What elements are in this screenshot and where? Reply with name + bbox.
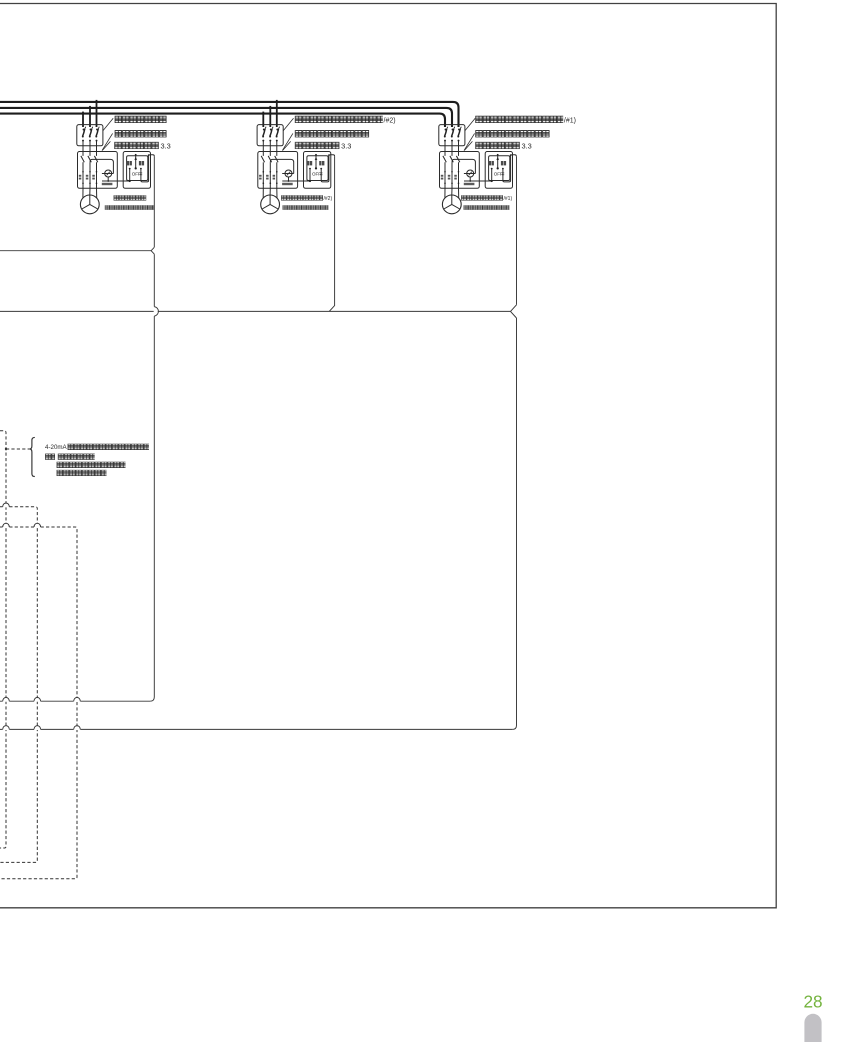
leader line to breaker label branch 1 <box>103 118 113 131</box>
dashed wire 1 (4-20mA output) <box>0 431 6 848</box>
overload element mark phase 3 branch 1 <box>92 175 95 177</box>
label: cooling tower fan motor (low/#1) <box>461 195 503 201</box>
breaker pole 1 branch 3 <box>445 129 447 131</box>
grey tab pill <box>804 1014 821 1042</box>
switch pole branch 1 <box>135 154 137 156</box>
svg-text:OFF: OFF <box>494 172 503 177</box>
wire phase 3 through overload branch 1 <box>96 162 98 188</box>
wire phase 3 through overload branch 2 <box>276 162 278 188</box>
label: not supplied by Carrier (b1) <box>105 205 154 210</box>
wire phase 3 breaker to starter branch 1 <box>96 141 98 156</box>
label: optional switch see note 3.3 (b3) <box>475 142 520 149</box>
page border frame <box>0 4 776 908</box>
curly brace <box>30 437 35 476</box>
overload protection label branch 3 <box>464 183 475 185</box>
svg-text:3.3: 3.3 <box>341 142 351 151</box>
contactor contact phase 3 branch 2 <box>275 156 278 162</box>
wire phase 1 through overload branch 1 <box>82 162 84 188</box>
optional HOA switch box branch 2 <box>304 152 331 189</box>
hand label branch 1 <box>127 161 129 165</box>
label: cooling tower fan motor breaker (high/#2) <box>295 116 383 123</box>
motor M3 feed wires <box>444 188 446 198</box>
breaker pole 3 branch 2 <box>276 129 278 131</box>
svg-text:28: 28 <box>804 992 823 1012</box>
leader line to switch note branch 2 <box>283 141 291 150</box>
control wire coil to switch branch 3 <box>469 177 471 181</box>
wire phase 1 breaker to starter branch 2 <box>262 141 264 156</box>
T-junction chamfer b1 at y=250.7 <box>151 247 154 254</box>
auto contact + output wire branch 3 <box>502 168 504 170</box>
3-phase power bus L3 <box>0 114 445 127</box>
wire phase 2 breaker to starter branch 2 <box>269 141 271 156</box>
overload relay coil circle branch 3 <box>467 170 474 177</box>
note line 2 <box>45 454 55 460</box>
leader line to starter label branch 2 <box>282 133 293 150</box>
wire phase 1 breaker to starter branch 1 <box>82 141 84 156</box>
switch pole branch 2 <box>315 154 317 156</box>
auto contact + output wire branch 1 <box>140 168 142 170</box>
breaker pole 2 branch 1 <box>90 129 92 131</box>
label: optional switch see note 3.3 (b1) <box>114 142 159 149</box>
motor M1 circle <box>80 195 99 214</box>
auto label branch 2 <box>319 161 321 165</box>
overload element mark phase 2 branch 1 <box>86 175 89 177</box>
label: cooling water pump motor <box>114 195 147 201</box>
breaker pole 3 branch 1 <box>96 129 98 131</box>
wire branch2 HOA down, merge into y=311.4 <box>329 156 334 311</box>
wire horizontal y=250.7 to left edge <box>0 250 151 252</box>
wire tap phase 1 branch 2 <box>262 112 264 127</box>
contactor contact phase 3 branch 1 <box>94 156 97 162</box>
overload relay coil circle branch 2 <box>285 170 292 177</box>
contactor contact phase 2 branch 1 <box>88 156 91 162</box>
circuit breaker CB2 box <box>257 125 283 146</box>
hop: dashed wire2 over wire1 <box>3 504 10 508</box>
contactor contact phase 1 branch 1 <box>81 156 84 162</box>
wire phase 2 breaker to starter branch 3 <box>451 141 453 156</box>
optional HOA switch box branch 3 <box>485 152 512 189</box>
starter coil wiring branch 1 <box>90 159 113 173</box>
hand label branch 3 <box>489 161 491 165</box>
overload element mark phase 1 branch 3 <box>441 175 444 177</box>
overload element mark phase 3 branch 3 <box>454 175 457 177</box>
overload element mark phase 3 branch 2 <box>273 175 276 177</box>
contactor contact phase 1 branch 3 <box>443 156 446 162</box>
dashed wire 2 <box>0 507 37 863</box>
wire phase 2 through overload branch 2 <box>269 162 271 188</box>
wire phase 2 through overload branch 1 <box>89 162 91 188</box>
svg-text:4-20mA: 4-20mA <box>45 444 68 451</box>
wire tap phase 2 branch 1 <box>89 106 91 127</box>
3-phase power bus L2 <box>0 108 452 127</box>
label: cooling tower fan motor (high/#2) <box>281 195 323 201</box>
svg-text:OFF: OFF <box>132 172 141 177</box>
hand contact branch 3 <box>491 168 493 170</box>
leader line to switch note branch 1 <box>102 141 110 150</box>
label: cooling tower fan motor breaker (low/#1) <box>475 116 563 123</box>
hand label branch 2 <box>307 161 309 165</box>
overload element mark phase 2 branch 2 <box>266 175 269 177</box>
starter coil wiring branch 3 <box>452 159 475 173</box>
label: not supplied by Carrier (b2) <box>283 205 329 210</box>
auto contact + output wire branch 2 <box>320 168 322 170</box>
wire phase 2 through overload branch 3 <box>451 162 453 188</box>
switch pole branch 3 <box>497 154 499 156</box>
dashed stub to brace <box>6 448 30 450</box>
svg-text:3.3: 3.3 <box>161 142 171 151</box>
overload protection label branch 2 <box>282 183 293 185</box>
svg-text:/#1): /#1) <box>504 196 513 202</box>
leader line to breaker label branch 3 <box>465 118 475 131</box>
svg-text:3.3: 3.3 <box>522 142 532 151</box>
dashed wire 3 <box>0 527 77 879</box>
wire phase 1 through overload branch 3 <box>444 162 446 188</box>
breaker pole 2 branch 2 <box>270 129 272 131</box>
wire branch3 HOA down <box>512 156 516 729</box>
3-phase power bus L1 <box>0 102 459 127</box>
hop: dashed wire3 over wire2 <box>34 524 41 528</box>
motor starter M2 box <box>258 152 298 189</box>
svg-text:/#2): /#2) <box>384 117 396 124</box>
wire tap phase 3 branch 1 <box>96 100 98 127</box>
circuit breaker CB3 box <box>439 125 465 146</box>
auto label branch 3 <box>501 161 503 165</box>
optional HOA switch box branch 1 <box>123 152 150 189</box>
wire phase 3 breaker to starter branch 2 <box>276 141 278 156</box>
wire horizontal y=701.2 with hops over dashed wires <box>0 700 150 702</box>
wire phase 3 through overload branch 3 <box>458 162 460 188</box>
label: not supplied by Carrier (b3) <box>464 205 510 210</box>
contactor contact phase 1 branch 2 <box>261 156 264 162</box>
contactor contact phase 2 branch 2 <box>268 156 271 162</box>
label: cooling water pump starter <box>115 130 167 137</box>
motor M3 circle <box>442 195 461 214</box>
wire phase 1 through overload branch 2 <box>262 162 264 188</box>
starter coil wiring branch 2 <box>270 159 293 173</box>
hand contact branch 1 <box>129 168 131 170</box>
wire tap phase 3 branch 2 <box>276 100 278 127</box>
svg-text:OFF: OFF <box>312 172 321 177</box>
motor starter M1 box <box>78 152 118 189</box>
svg-text:/#1): /#1) <box>564 117 576 124</box>
leader line to starter label branch 3 <box>464 133 475 150</box>
overload relay coil circle branch 1 <box>105 170 112 177</box>
control wire coil to switch branch 2 <box>288 177 290 181</box>
wire phase 2 breaker to starter branch 1 <box>89 141 91 156</box>
note line 3 <box>57 462 126 468</box>
motor starter M3 box <box>440 152 480 189</box>
note line 4 <box>57 470 107 476</box>
overload element mark phase 1 branch 1 <box>79 175 82 177</box>
motor M2 circle <box>261 195 280 214</box>
label: optional switch see note 3.3 (b2) <box>295 142 340 149</box>
breaker pole 1 branch 2 <box>263 129 265 131</box>
wire tap phase 1 branch 1 <box>82 112 84 127</box>
breaker pole 2 branch 3 <box>452 129 454 131</box>
motor M2 feed wires <box>262 188 264 198</box>
wire phase 1 breaker to starter branch 3 <box>444 141 446 156</box>
control wire coil to switch branch 1 <box>107 177 109 181</box>
breaker pole 1 branch 1 <box>83 129 85 131</box>
leader line to breaker label branch 2 <box>283 118 293 131</box>
Y-merge of y=311.4 wire into branch3 wire <box>511 305 517 318</box>
circuit breaker CB1 box <box>77 125 103 146</box>
label: cooling water pump breaker <box>115 116 167 123</box>
overload element mark phase 2 branch 3 <box>448 175 451 177</box>
breaker pole 3 branch 3 <box>458 129 460 131</box>
svg-text:/#2): /#2) <box>324 196 333 202</box>
hop: dashed wire3 over wire1 <box>3 524 10 528</box>
wire horizontal y=311.4 to left edge <box>0 310 511 312</box>
overload element mark phase 1 branch 2 <box>259 175 262 177</box>
wire tap phase 2 branch 2 <box>269 106 271 127</box>
leader line to switch note branch 3 <box>464 141 472 150</box>
junction dot <box>5 448 7 450</box>
contactor contact phase 2 branch 3 <box>450 156 453 162</box>
hand contact branch 2 <box>309 168 311 170</box>
leader line to starter label branch 1 <box>102 133 113 150</box>
label: cooling tower fan motor starter (b2) <box>295 130 369 137</box>
contactor contact phase 3 branch 3 <box>456 156 459 162</box>
wire branch1 HOA down, hop over y=311.4 <box>150 156 154 701</box>
wire phase 3 breaker to starter branch 3 <box>458 141 460 156</box>
motor M1 feed wires <box>82 188 84 198</box>
auto label branch 1 <box>139 161 141 165</box>
overload protection label branch 1 <box>102 183 113 185</box>
wire horizontal y=729.4 with hops over dashed wires <box>0 728 512 730</box>
label: cooling tower fan motor starter (b3) <box>475 130 549 137</box>
